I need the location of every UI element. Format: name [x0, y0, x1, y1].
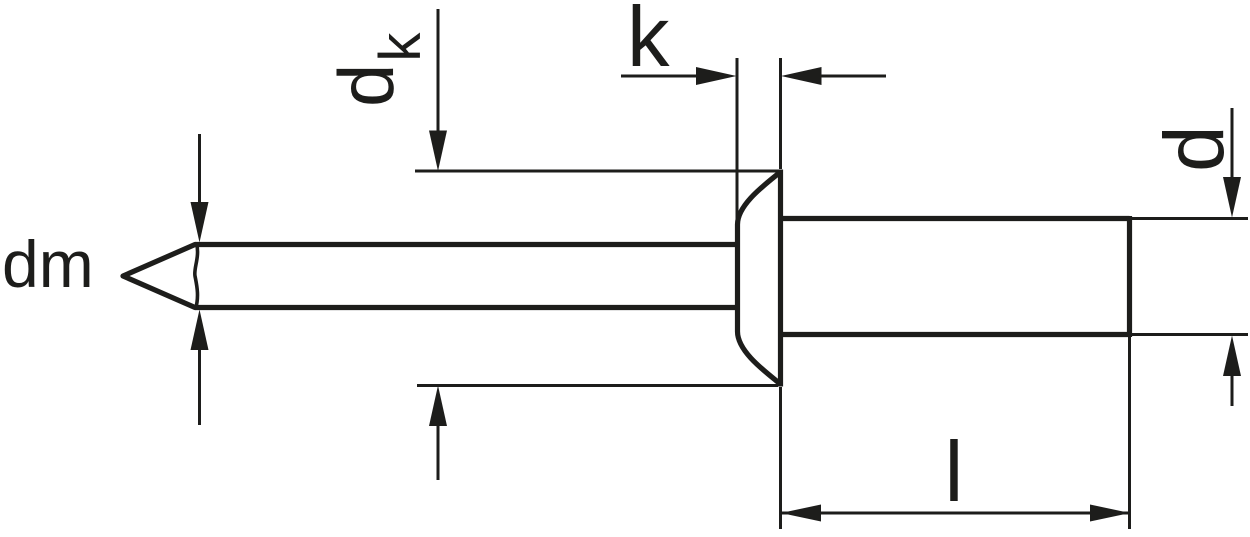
l left arrowhead	[781, 505, 821, 522]
dk upper arrowhead	[429, 131, 447, 172]
l right arrowhead	[1090, 505, 1130, 522]
d upper arrowhead	[1223, 177, 1241, 218]
dk bottom extension line	[417, 384, 778, 387]
mandrel break line	[195, 243, 198, 309]
svg-text:dk: dk	[322, 32, 433, 107]
body top line	[781, 216, 1130, 221]
dk top extension line	[415, 170, 778, 173]
dm lower arrow tail	[198, 344, 201, 425]
dk lower arrowhead	[429, 386, 447, 427]
dm upper arrowhead	[191, 202, 209, 243]
l left extension line	[779, 387, 782, 529]
k extension line left	[736, 58, 739, 240]
k left arrowhead	[696, 67, 737, 85]
k dimension right tail	[814, 75, 886, 78]
l dimension line	[781, 512, 1130, 515]
rivet head dome	[738, 172, 782, 385]
d bottom extension line	[1132, 333, 1248, 336]
svg-text:dm: dm	[2, 227, 94, 301]
body right end	[1127, 216, 1132, 337]
mandrel bottom line	[195, 305, 739, 310]
d top extension line	[1132, 217, 1248, 220]
rivet head face	[778, 170, 783, 387]
dm upper arrow tail	[198, 134, 201, 208]
dm lower arrowhead	[191, 310, 209, 351]
d lower arrowhead	[1223, 336, 1241, 377]
svg-text:k: k	[627, 0, 670, 85]
svg-text:l: l	[945, 425, 964, 520]
k dimension left tail	[621, 75, 703, 78]
mandrel top line	[195, 242, 739, 247]
k extension line right	[779, 58, 782, 169]
d upper arrow tail	[1231, 108, 1234, 183]
body bottom line	[781, 332, 1130, 337]
dk lower arrow tail	[437, 420, 440, 480]
svg-text:d: d	[1147, 125, 1241, 172]
dk upper arrow tail	[437, 9, 440, 137]
l right extension line	[1128, 337, 1131, 529]
mandrel tip	[123, 245, 195, 308]
d lower arrow tail	[1231, 370, 1234, 406]
k right arrowhead	[781, 67, 822, 85]
